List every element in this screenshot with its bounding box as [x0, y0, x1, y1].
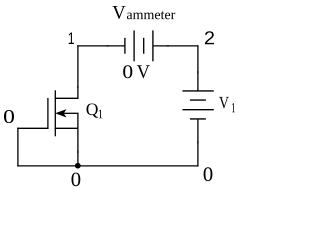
wire gate lead	[17, 127, 48, 129]
label Q1 (Q)	[87, 104, 99, 118]
mosfet Q1 drain tap	[55, 97, 79, 99]
node 0 label bottom right	[204, 167, 213, 181]
label Vammeter subscript "ammeter"	[127, 11, 175, 19]
wire ammeter to node 2	[153, 45, 199, 47]
label V1 (V)	[219, 97, 229, 109]
ammeter battery plate short C	[143, 38, 145, 54]
wire joint dot on V1 bottom stub	[197, 141, 199, 144]
wire joint dot on right vertical	[197, 71, 199, 74]
wire node 2 vertical down to battery V1	[197, 45, 199, 91]
label V1 subscript 1	[232, 103, 235, 112]
label Vammeter (V)	[112, 6, 125, 19]
battery V1 plate short	[190, 99, 206, 101]
node 2 label	[205, 31, 214, 44]
wire node 1 top horizontal	[77, 45, 125, 47]
label 0 V (0)	[123, 65, 132, 78]
node 0 label bottom center	[71, 173, 80, 187]
battery V1 plate short bottom (-)	[190, 118, 206, 120]
wire source vertical down to node 0 junction	[77, 113, 79, 166]
node 1 label	[69, 32, 74, 44]
wire joint dot on drain vertical	[77, 86, 79, 89]
wire drain vertical from node 1	[77, 45, 79, 98]
battery V1 plate long top (+)	[182, 90, 213, 92]
wire joint dot on source vertical	[77, 151, 79, 154]
mosfet Q1 bulk arrowhead (points left into channel)	[56, 110, 66, 117]
wire joint dot on top-right segment	[167, 45, 170, 47]
ammeter battery plate tall B	[133, 30, 135, 61]
wire joint dot on top-left segment	[106, 45, 109, 47]
mosfet Q1 source tap	[55, 127, 78, 129]
wire bottom horizontal	[17, 165, 198, 167]
ammeter battery plate short A (node 1 side)	[124, 38, 126, 54]
label Q1 subscript 1	[99, 110, 103, 119]
mosfet Q1 gate bar	[47, 98, 49, 129]
junction dot node 0	[75, 163, 81, 169]
mosfet Q1 channel bar	[54, 90, 56, 136]
label 0 V (V)	[137, 65, 150, 78]
battery V1 plate long	[182, 109, 213, 111]
wire battery V1 bottom stub	[197, 119, 199, 167]
ammeter battery plate tall D (node 2 side)	[152, 30, 154, 61]
node 0 label gate left	[4, 110, 14, 123]
mosfet Q1 bulk arrow tail	[63, 112, 79, 114]
wire left vertical (gate net down to bottom)	[17, 128, 19, 167]
